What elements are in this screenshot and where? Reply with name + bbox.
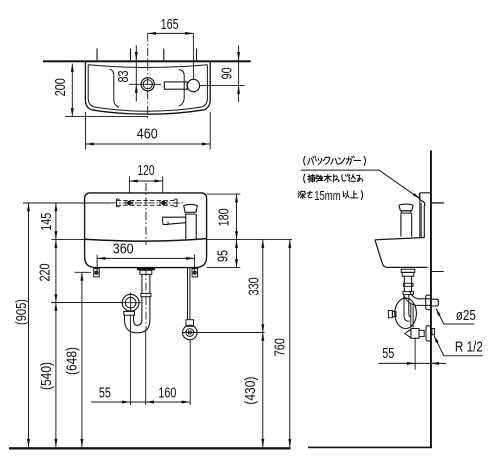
supply pipe (front) — [187, 268, 189, 320]
rim back edge line — [88, 65, 207, 68]
tailpiece nut (side) — [402, 272, 414, 276]
extension line trap level — [51, 302, 122, 304]
valve horizontal extension — [182, 332, 264, 334]
stop valve (side): handle cone — [405, 329, 411, 338]
valve escutcheon — [426, 326, 430, 341]
tailpiece nut — [140, 270, 152, 274]
floor line (front) — [9, 447, 291, 449]
hanger left end bracket — [117, 199, 120, 207]
basin rim line (front) — [85, 239, 207, 242]
extension line 180 top right — [207, 193, 241, 195]
floor line (side) — [308, 447, 432, 449]
hanger right end bracket — [174, 199, 177, 207]
basin inner rim offset line — [88, 65, 207, 112]
dim (905) — [28, 203, 30, 447]
tailpiece pipe — [141, 274, 143, 293]
note text line3: depth 15mm min) — [297, 191, 300, 194]
faucet lever bar — [164, 82, 187, 89]
leader from note to bracket — [301, 170, 419, 198]
right hook under basin — [192, 269, 198, 277]
svg-text:200: 200 — [52, 78, 69, 96]
front view of basin — [85, 162, 265, 405]
drain centerline chain — [145, 268, 147, 330]
faucet body (side) — [400, 213, 402, 237]
centerline horizontal through drain — [129, 83, 161, 85]
basin rim (side) — [375, 238, 424, 240]
dim 460 — [85, 112, 87, 150]
trap outlet curve to wall — [410, 292, 430, 299]
faucet vertical extension — [192, 33, 194, 79]
svg-text:460: 460 — [137, 125, 158, 142]
svg-text:(905): (905) — [13, 299, 30, 325]
dim 90 — [238, 46, 240, 103]
svg-text:(430): (430) — [242, 377, 259, 405]
pipe coupling (side) — [403, 283, 413, 286]
trap inlet ring (side) — [403, 292, 413, 295]
drain flange (dark) — [137, 268, 155, 271]
svg-text:15mm: 15mm — [314, 188, 341, 203]
front view dimensions — [9, 194, 292, 449]
trap U-bend — [125, 315, 150, 333]
fixing tick marks — [96, 49, 98, 61]
svg-text:145: 145 — [38, 213, 55, 231]
svg-text:55: 55 — [99, 385, 111, 402]
svg-text:R 1/2: R 1/2 — [455, 339, 483, 356]
tailpiece flange (side) — [401, 269, 415, 272]
left hook under basin — [94, 269, 100, 277]
trap riser nut — [124, 311, 135, 315]
centerline vertical (front) — [145, 183, 147, 245]
valve nut through wall — [432, 329, 435, 335]
basin outer outline (plan) — [85, 62, 210, 114]
hanger level extension right of wall — [432, 202, 444, 204]
extension lines below trap — [129, 316, 131, 405]
dim 330 / (430) shared line — [262, 240, 264, 448]
note text line2: (reinforcement wood screw — [304, 174, 305, 183]
extension line rim left — [52, 239, 85, 241]
tailpiece pipe (side) — [403, 276, 405, 291]
leader R 1/2 — [434, 336, 483, 356]
dim 360 — [96, 255, 98, 272]
svg-text:83: 83 — [115, 71, 132, 83]
basin back panel (side) — [419, 195, 421, 239]
dim 55 (side) — [414, 338, 416, 370]
bowl right edge — [179, 70, 184, 107]
wall line (plan) — [43, 60, 251, 62]
faucet spout — [163, 217, 186, 224]
trap outlet centerlines — [120, 302, 141, 304]
top view: plan of basin — [43, 16, 251, 149]
dim 760 — [289, 240, 291, 448]
hanger bolt right — [162, 201, 166, 205]
basin body outline (front) — [85, 193, 207, 268]
supply pipe to valve (side) — [410, 303, 412, 328]
extension line basin bottom right — [207, 267, 241, 269]
svg-text:55: 55 — [382, 345, 394, 362]
trap inner J-tube — [404, 295, 410, 322]
faucet ring (side) — [402, 211, 411, 213]
dim 165 — [148, 32, 194, 34]
extension line for 200 (front edge) — [65, 115, 148, 117]
wall line (side) — [430, 151, 432, 448]
svg-text:(540): (540) — [38, 362, 55, 390]
faucet neck — [185, 213, 196, 215]
bowl left edge — [110, 69, 120, 107]
dim 180 / 95 — [236, 194, 238, 268]
note text line1: (back hanger) — [304, 156, 305, 165]
faucet (front): handle cap — [184, 204, 198, 212]
trap body oval (side) — [395, 298, 417, 328]
faucet body — [186, 214, 196, 240]
svg-text:90: 90 — [219, 67, 236, 79]
dim 83 — [135, 46, 137, 102]
dim 145 / 220 / (540) shared line — [55, 203, 57, 447]
svg-text:120: 120 — [138, 162, 155, 179]
centerline vertical through drain — [147, 33, 149, 120]
dim 55 / 160 bottom — [91, 401, 190, 403]
faucet (side): cap — [399, 204, 413, 211]
extension line (648) top — [75, 271, 92, 273]
svg-text:160: 160 — [158, 385, 176, 402]
faucet center horizontal extension (90 dim) — [200, 84, 245, 86]
svg-text:180: 180 — [216, 208, 233, 226]
svg-text:330: 330 — [245, 277, 262, 295]
svg-text:360: 360 — [113, 240, 134, 257]
back hanger bracket (side) — [419, 193, 430, 207]
basin bottom extension right of wall — [430, 271, 444, 273]
trap inlet tube — [141, 297, 143, 320]
side view — [308, 151, 483, 449]
spout outlet stub — [163, 221, 168, 224]
svg-text:760: 760 — [271, 338, 288, 356]
svg-text:ø25: ø25 — [456, 307, 476, 324]
svg-text:220: 220 — [36, 264, 53, 282]
drain fitting: double circle — [141, 78, 154, 91]
extension line rim right long — [207, 239, 292, 241]
outlet escutcheon — [426, 295, 431, 309]
dim 200 — [71, 64, 73, 117]
leader o25 — [436, 309, 474, 325]
dim (648) — [81, 272, 83, 447]
cleanout plug (side) — [388, 310, 392, 317]
extension line hanger level — [23, 202, 110, 204]
stop valve (front) — [183, 325, 198, 340]
svg-text:95: 95 — [214, 250, 231, 262]
valve body (side) — [411, 329, 419, 339]
pipe coupling nut — [141, 293, 151, 296]
trap wall-outlet circle — [122, 294, 139, 311]
supply fitting — [186, 320, 194, 327]
svg-text:(648): (648) — [63, 347, 80, 375]
dim 120 — [128, 176, 130, 193]
svg-text:165: 165 — [161, 16, 179, 33]
back hanger dashed lines — [117, 200, 178, 202]
hanger bolt left — [127, 201, 131, 205]
faucet circle (plan) — [187, 79, 199, 91]
outlet stub through wall — [432, 299, 438, 306]
basin front profile (side) — [375, 240, 428, 268]
